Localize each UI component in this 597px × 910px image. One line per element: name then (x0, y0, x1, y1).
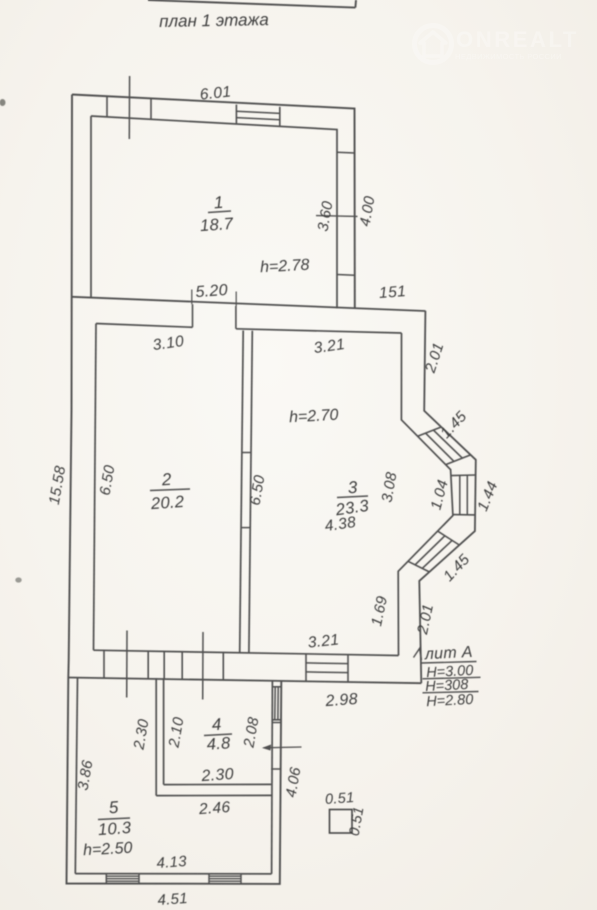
svg-text:10.3: 10.3 (97, 819, 132, 839)
svg-text:1: 1 (213, 193, 224, 213)
svg-text:2.30: 2.30 (200, 766, 234, 785)
svg-text:2.46: 2.46 (197, 799, 231, 818)
svg-text:4.13: 4.13 (156, 853, 188, 872)
svg-text:НЕДВИЖИМОСТЬ РОССИИ: НЕДВИЖИМОСТЬ РОССИИ (455, 52, 562, 61)
svg-text:2.98: 2.98 (324, 691, 358, 710)
svg-text:151: 151 (378, 283, 406, 302)
svg-text:h=2.50: h=2.50 (83, 840, 133, 860)
svg-text:20.2: 20.2 (149, 493, 185, 513)
svg-text:h=2.78: h=2.78 (260, 257, 310, 277)
svg-text:4: 4 (211, 715, 222, 735)
svg-text:5: 5 (108, 798, 119, 818)
svg-text:2: 2 (160, 470, 172, 490)
svg-text:лит А: лит А (423, 644, 473, 664)
svg-text:ONREALT: ONREALT (456, 27, 579, 52)
svg-text:3: 3 (347, 478, 358, 498)
svg-text:5.20: 5.20 (195, 282, 228, 301)
svg-text:3.21: 3.21 (307, 631, 340, 651)
svg-text:6.01: 6.01 (199, 83, 232, 103)
svg-text:h=2.70: h=2.70 (289, 407, 339, 427)
svg-text:0.51: 0.51 (324, 790, 354, 808)
svg-text:18.7: 18.7 (199, 215, 234, 235)
svg-text:план 1 этажа: план 1 этажа (159, 10, 269, 31)
svg-text:4.8: 4.8 (206, 734, 232, 754)
svg-text:4.51: 4.51 (157, 890, 189, 909)
svg-text:Н=2.80: Н=2.80 (426, 692, 474, 710)
